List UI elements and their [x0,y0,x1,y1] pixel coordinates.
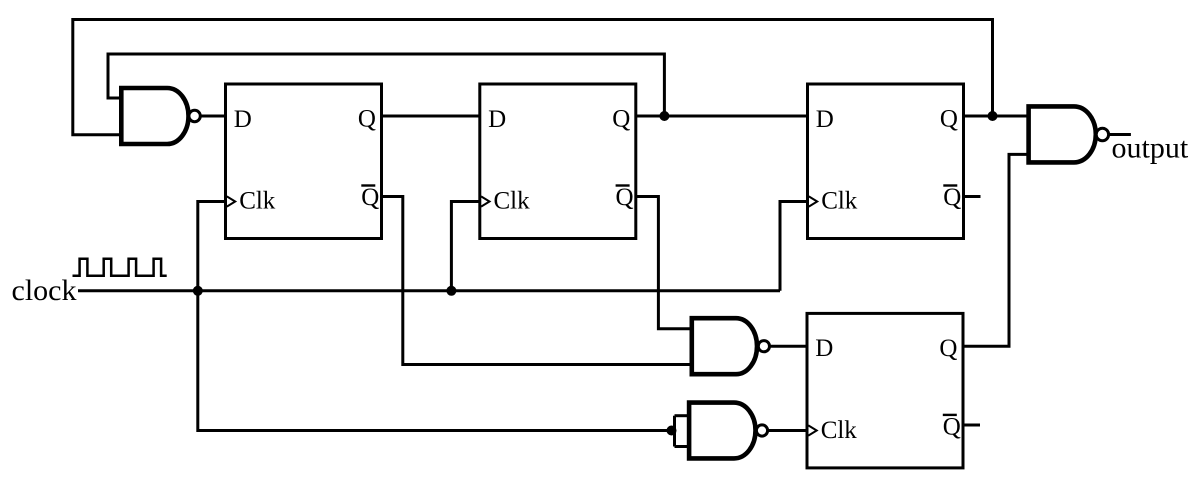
svg-text:output: output [1112,132,1189,165]
svg-text:Q: Q [943,184,961,211]
wire FF2 Q to FF3 D [636,115,808,118]
svg-text:Q: Q [940,106,958,133]
wire G3 tied input upper stub [675,414,691,417]
junction node clock tap 1 [193,286,203,296]
svg-text:clock: clock [12,274,77,307]
svg-text:D: D [234,106,252,133]
junction node FF2 Q tap [659,111,669,121]
svg-text:D: D [816,106,834,133]
wire G3 tied input lower stub [675,445,691,448]
clock waveform symbol [73,259,167,276]
junction node clock tap 2 [446,286,456,296]
nand gate G2 [692,318,757,374]
junction node G3 input dot [667,426,677,436]
wire FF2 Qbar to NAND G2 upper input [636,197,692,329]
FF4 Qbar overbar [943,414,957,416]
svg-text:Q: Q [612,106,630,133]
wire G4 output [1109,133,1131,136]
svg-text:Q: Q [361,184,379,211]
svg-text:Q: Q [939,335,957,362]
D flip-flop FF4 box [807,313,963,468]
wire outer feedback (FF3 Q node to NAND G1 lower input) [73,20,993,135]
G2 output bubble [758,341,769,352]
wire clock to FF2 Clk [451,202,479,291]
svg-text:Clk: Clk [821,417,858,444]
wire G2 output to FF4 D [770,345,808,348]
D flip-flop FF3 box [808,84,964,239]
FF2 clock wedge [481,196,489,206]
D flip-flop FF1 box [226,84,382,239]
wire G3 tied input bar [673,416,676,447]
wire FF1 Q to FF2 D [382,115,480,118]
G1 output bubble [189,110,200,121]
svg-text:Clk: Clk [239,187,276,214]
wire FF3 Qbar stub [964,195,981,198]
svg-text:Q: Q [358,106,376,133]
svg-text:D: D [488,106,506,133]
G4 output bubble [1096,128,1108,140]
wire G1 output to FF1 D [200,115,225,118]
wire FF3 Q to NAND G4 upper input [964,115,1029,118]
FF1 Qbar overbar [361,184,375,186]
FF3 Qbar overbar [943,184,957,186]
D flip-flop FF2 box [480,84,636,239]
G3 output bubble [756,425,767,436]
junction node FF3 Q tap [988,111,998,121]
FF4 clock wedge [808,425,816,435]
wire clock line [78,289,780,292]
svg-text:Q: Q [616,184,634,211]
nand gate G1 [121,88,188,144]
wire FF4 Qbar stub [963,424,980,427]
wire FF4 Q to NAND G4 lower input [963,154,1029,346]
FF1 clock wedge [227,196,235,206]
FF3 clock wedge [809,196,817,206]
svg-text:Clk: Clk [494,187,531,214]
wire G3 output to FF4 Clk [768,429,807,432]
wire clock down to NAND G3 input [198,291,675,431]
wire clock to FF3 Clk [780,202,808,291]
nand gate G3 [689,403,755,459]
FF2 Qbar overbar [616,184,630,186]
nand gate G4 [1029,106,1096,162]
wire FF1 Qbar to NAND G2 lower input [382,197,692,365]
wire inner feedback (FF2 Q node to NAND G1 upper input) [108,54,664,116]
svg-text:Clk: Clk [821,187,858,214]
svg-text:D: D [815,335,833,362]
wire clock to FF1 Clk [198,202,226,291]
svg-text:Q: Q [943,413,961,440]
